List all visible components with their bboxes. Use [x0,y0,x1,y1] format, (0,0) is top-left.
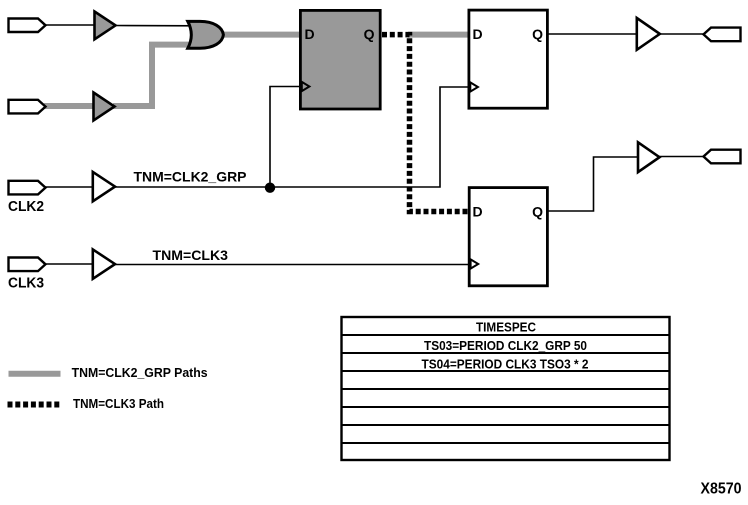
wire (thick gray TNM=CLK2_GRP path) [408,32,469,38]
wire (FF1 clock) [270,87,300,188]
wire [114,25,196,27]
flip-flop FF3 [469,188,547,286]
svg-text:D: D [473,26,483,42]
wire (thick gray TNM=CLK2_GRP path) [113,45,196,106]
wire (CLK2 net) [114,87,469,187]
input pad I2 [9,100,46,114]
svg-text:TNM=CLK2_GRP: TNM=CLK2_GRP [134,169,247,185]
svg-text:X8570: X8570 [701,481,742,498]
svg-text:Q: Q [532,26,543,42]
buffer U1 [95,12,116,40]
input pad CLK2 [9,181,46,195]
svg-text:TS03=PERIOD CLK2_GRP 50: TS03=PERIOD CLK2_GRP 50 [424,338,587,353]
legend dotted sample (TNM=CLK3 Path) [8,402,62,408]
TIMESPEC table [342,317,670,460]
wire (FF2 Q to buffer) [548,33,637,35]
input pad I1 [9,19,46,33]
svg-text:CLK2: CLK2 [8,199,44,215]
legend gray sample (TNM=CLK2_GRP Paths) [9,371,61,377]
wire (CLK3 net) [114,264,469,266]
buffer U2 [94,93,115,121]
wire (CLK3 pad to buffer) [44,263,95,265]
buffer U5 [637,18,660,50]
svg-text:Q: Q [532,204,543,220]
flip-flop FF2 [469,10,548,108]
svg-text:D: D [305,26,315,42]
output pad O1 [704,28,741,42]
svg-text:TS04=PERIOD CLK3 TSO3 * 2: TS04=PERIOD CLK3 TSO3 * 2 [422,357,589,372]
flip-flop FF1 [300,10,380,109]
svg-text:Q: Q [364,26,375,42]
svg-text:CLK3: CLK3 [8,276,44,292]
OR gate G1 [188,21,224,48]
svg-text:TNM=CLK3 Path: TNM=CLK3 Path [73,396,164,411]
svg-text:TNM=CLK3: TNM=CLK3 [153,247,229,263]
buffer U6 [638,142,660,172]
wire (buffer to output pad) [658,33,704,35]
output pad O2 [704,150,741,164]
input pad CLK3 [9,258,46,272]
svg-text:D: D [473,204,483,220]
wire (CLK2 pad to buffer) [44,186,95,188]
buffer U3 [93,172,115,201]
wire (thick gray TNM=CLK2_GRP path) [220,32,301,38]
wire (dotted TNM=CLK3 path) [382,35,469,212]
wire (thick gray TNM=CLK2_GRP path) [44,103,95,109]
svg-text:TIMESPEC: TIMESPEC [476,320,537,335]
wire (buffer to output pad) [658,156,704,158]
wire (FF3 Q to buffer) [548,157,639,211]
junction node (CLK2 net) [265,183,275,193]
buffer U4 [93,249,115,278]
svg-text:TNM=CLK2_GRP Paths: TNM=CLK2_GRP Paths [72,365,208,380]
wire [44,24,95,26]
